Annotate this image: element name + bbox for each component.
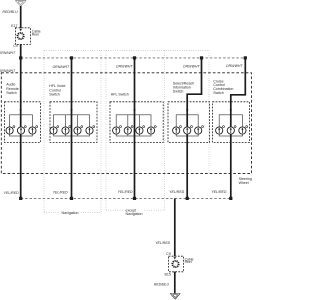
label HFL Switch [111,93,129,97]
svg-text:C9: C9 [166,252,171,256]
dotted option box except-Navigation left edge [105,50,107,210]
svg-text:YEL/RED: YEL/RED [53,191,68,195]
dotted option box Navigation right edge [100,50,102,212]
off-page connector triangle (bottom) [170,294,180,300]
cable reel (bottom) [169,256,184,272]
pin label C9 (top) [13,44,18,48]
wire bottom cable reel to connector [174,272,176,294]
svg-text:YEL/RED: YEL/RED [4,191,19,195]
HFL switch frame [110,102,163,143]
collector bus junction node 5 [229,197,232,200]
off-page connector triangle (top) [15,1,26,7]
svg-text:RED/BLU: RED/BLU [2,10,18,14]
label Navigation [62,211,79,215]
svg-text:ORN/WHT: ORN/WHT [52,65,70,69]
wire label YEL/RED (cruise) [211,190,226,194]
pin label E17 [11,24,17,28]
cable reel (top) [15,28,30,45]
wire label ORN/WHT (HFL voice) [52,65,70,69]
label Steering Wheel [239,177,252,185]
svg-text:RED/BLU: RED/BLU [154,283,170,287]
svg-text:Navigation: Navigation [62,211,79,215]
cruise control combination switch frame [213,102,250,143]
label HFL Voice Control Switch [49,84,65,97]
bus junction node 5 [244,56,247,59]
svg-text:SteeringWheel: SteeringWheel [239,177,252,185]
ORN/WHT dashed bus wire [21,57,246,59]
wire through HFL voice control switch [71,58,73,199]
entry arrow into top cable reel [20,29,22,32]
wire through select/reset switch (jog) [187,58,201,199]
steering wheel dashed boundary box [1,73,251,174]
dotted option box right section edge [208,50,210,173]
svg-text:YEL/RED: YEL/RED [211,190,226,194]
wire from collector bus down to cable reel [174,198,176,256]
label Cable Reel (top) [32,30,41,37]
svg-text:CruiseControlCombinationSwitch: CruiseControlCombinationSwitch [213,79,233,95]
audio remote switch frame [5,102,41,143]
arrow below bottom cable reel [174,272,176,275]
HFL voice control switch frame [50,102,97,143]
svg-text:ORN/WHT: ORN/WHT [116,65,134,69]
wire through HFL switch [134,58,136,199]
wire label YEL/RED (HFL) [118,190,133,194]
wire label YEL/RED (audio) [4,191,19,195]
svg-text:YEL/RED: YEL/RED [169,190,184,194]
collector bus junction node 4 [186,197,189,200]
label Audio Remote Switch [6,83,18,96]
wire color label RED/BLU (bottom) [154,283,170,287]
wire label ORN/WHT (HFL switch) [116,65,134,69]
pin label B15 [164,272,170,276]
svg-text:HFL Switch: HFL Switch [111,93,129,97]
wire label ORN/WHT (below bus) [0,69,16,73]
dotted option box Navigation bottom edge [44,212,101,214]
dotted option box Navigation left edge [43,50,45,212]
collector bus junction node 1 [19,197,22,200]
svg-text:ORN/WHT: ORN/WHT [226,64,244,68]
HFL switch buttons [113,110,157,135]
svg-text:Select/Reset/InformationSwitch: Select/Reset/InformationSwitch [173,82,194,94]
svg-text:CableReel: CableReel [32,30,41,37]
wire label YEL/RED (HFL voice) [53,191,68,195]
dotted option box top edge [44,49,209,51]
YEL/RED dashed collector bus [21,197,231,199]
wire through cruise switch (jog) [231,58,246,199]
wire label YEL/RED (select) [169,190,184,194]
bus junction node 3 [133,56,136,59]
wire color label RED/BLU (top) [2,10,18,14]
svg-text:exceptNavigation: exceptNavigation [126,209,143,217]
collector bus junction node 2 [70,197,73,200]
HFL voice control switch buttons [50,110,95,135]
wire label YEL/RED (to cable reel) [155,241,170,245]
dotted option box except-Navigation right edge [164,50,166,210]
label except Navigation [126,209,143,217]
wire from top connector to cable reel E17 [20,6,22,28]
svg-text:YEL/RED: YEL/RED [118,190,133,194]
wire through audio remote switch [20,74,22,198]
arrow below top cable reel [20,45,22,48]
bus junction node 4 [200,56,203,59]
label Cable Reel (bottom) [185,257,194,264]
wire label ORN/WHT (cruise) [226,64,244,68]
svg-text:AudioRemoteSwitch: AudioRemoteSwitch [6,83,18,96]
svg-text:CableReel: CableReel [185,257,194,264]
svg-text:C9: C9 [13,44,18,48]
svg-text:YEL/RED: YEL/RED [155,241,170,245]
svg-text:B15: B15 [164,272,170,276]
svg-text:ORN/WHT: ORN/WHT [0,51,16,55]
collector bus junction node 3 [133,197,136,200]
wire label ORN/WHT (select/reset) [183,65,201,69]
cruise switch buttons [216,110,248,135]
svg-text:HFL VoiceControlSwitch: HFL VoiceControlSwitch [49,84,65,97]
bus junction node 2 [70,56,73,59]
select/reset information switch frame [168,102,210,143]
select/reset switch buttons [173,110,204,135]
pin label C9 (bottom) [166,252,171,256]
wire label ORN/WHT (above bus) [0,51,16,55]
audio remote switch buttons [6,110,38,135]
wire cable reel to ORN/WHT bus [20,44,22,74]
entry arrow into bottom cable reel [174,257,176,260]
svg-text:ORN/WHT: ORN/WHT [183,65,201,69]
label Select/Reset Information Switch [173,82,194,94]
label Cruise Control Combination Switch [213,79,233,95]
bus junction node 1 [19,56,22,59]
dotted option box except-Navigation bottom edge [106,209,165,211]
